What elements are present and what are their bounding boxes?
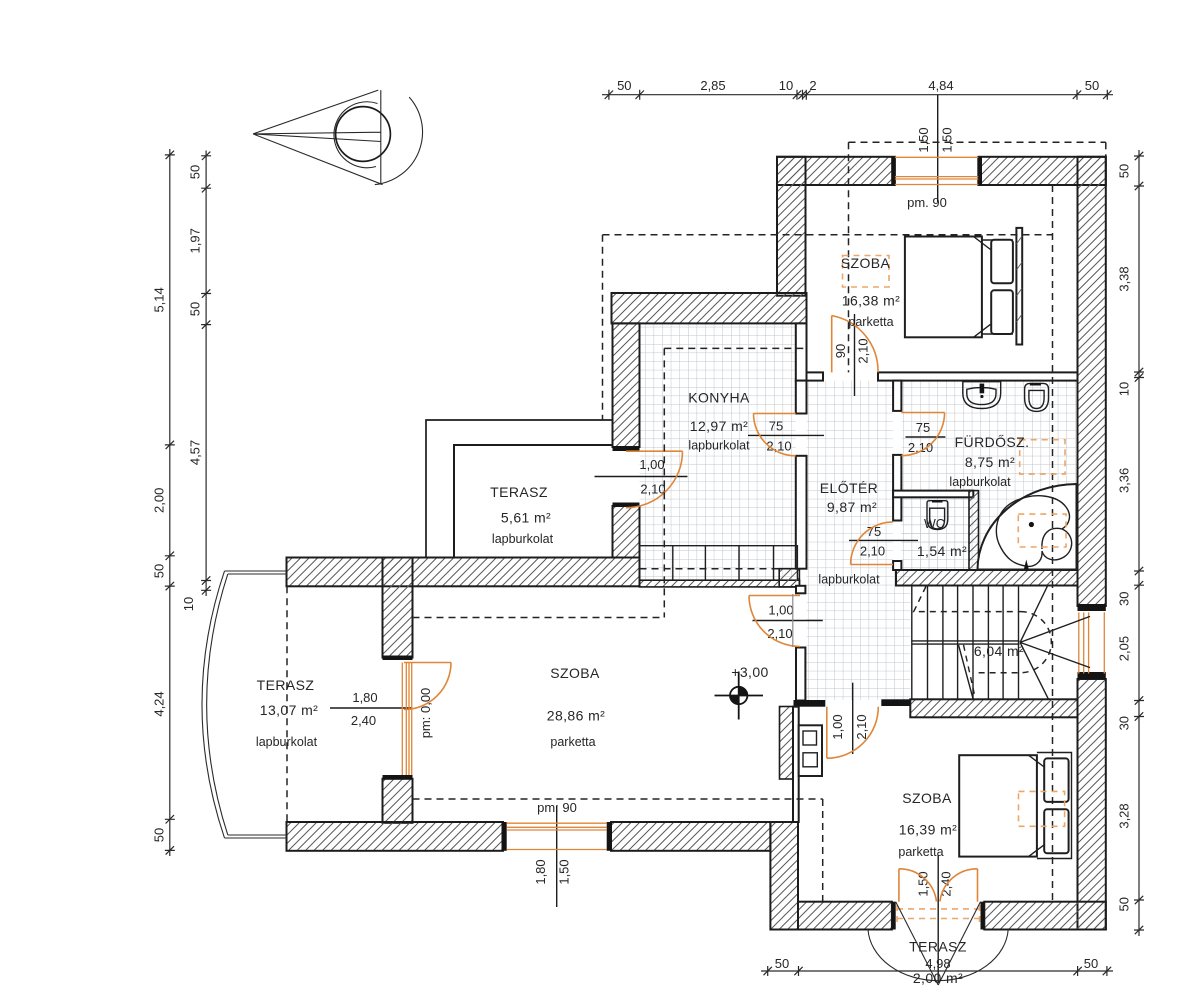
black cap divider window bottom — [383, 775, 413, 780]
french door right arc — [940, 869, 978, 902]
svg-text:TERASZ: TERASZ — [909, 939, 967, 955]
left inner dimension line — [205, 151, 207, 597]
door bedroom1 90/210 leaf — [831, 316, 833, 373]
dashed roof line x=602.5 — [602, 235, 604, 420]
door2 fraction line — [748, 434, 824, 436]
svg-text:SZOBA: SZOBA — [841, 255, 891, 271]
door szoba-corridor arc — [749, 596, 800, 647]
svg-text:2,40: 2,40 — [351, 713, 376, 728]
svg-text:13,07 m²: 13,07 m² — [260, 702, 318, 718]
wall bottom mid band — [611, 822, 770, 851]
svg-text:1,54 m²: 1,54 m² — [917, 543, 967, 559]
balcony bottom edge lines — [225, 835, 288, 838]
black cap konyha door top — [613, 446, 640, 451]
svg-text:90: 90 — [833, 344, 848, 358]
bed1 headboard — [1016, 228, 1022, 345]
svg-text:1,80: 1,80 — [352, 690, 377, 705]
dashed box furdosz upper — [1020, 440, 1065, 474]
svg-text:lapburkolat: lapburkolat — [818, 573, 880, 587]
door szoba2 100/210 leaf — [826, 707, 828, 759]
door szoba-corridor 100/210 leaf — [749, 595, 800, 597]
dashed roof line y=234.8 — [603, 234, 1053, 236]
svg-text:50: 50 — [152, 828, 167, 842]
svg-text:50: 50 — [617, 78, 631, 93]
black jamb french door left — [892, 902, 896, 930]
bed2 frame — [1037, 753, 1072, 859]
door szoba-corridor jamb line — [792, 594, 794, 647]
right dimension line — [1138, 150, 1140, 936]
bed1 mattress — [905, 237, 982, 338]
furnace box szoba2 — [799, 725, 822, 776]
stair break line — [959, 645, 974, 699]
wall konyha/bedroom1 — [796, 323, 807, 380]
wall szoba2 bottom right — [984, 902, 1106, 930]
wall furdosz/eloter seg1 — [893, 381, 901, 411]
svg-text:50: 50 — [188, 165, 203, 179]
svg-text:SZOBA: SZOBA — [902, 790, 952, 806]
dashed line x=664.3 konyha — [663, 348, 665, 617]
svg-text:1,00: 1,00 — [639, 457, 664, 472]
door konyha-eloter arc — [754, 414, 796, 456]
dashed line under counter y=568.7 — [640, 568, 780, 570]
sink furdosz — [963, 382, 1001, 409]
top window annotation line — [937, 95, 939, 202]
wall eloter left seg1 — [796, 381, 807, 414]
wall konyha/szoba thin band — [640, 580, 800, 587]
door eloter-furdosz arc — [901, 413, 944, 456]
svg-text:1,50: 1,50 — [916, 871, 931, 896]
wall stub right of szoba2 door — [881, 699, 910, 706]
svg-text:2,05: 2,05 — [1117, 636, 1132, 661]
black jamb french door right — [981, 902, 985, 930]
svg-text:1,80: 1,80 — [533, 859, 548, 884]
svg-text:50: 50 — [1085, 78, 1099, 93]
door eloter-wc 75/210 leaf — [851, 564, 894, 566]
sink tap — [980, 384, 985, 394]
terasz5 inner rail — [454, 445, 613, 558]
wall konyha left lower — [613, 506, 640, 558]
svg-text:1,97: 1,97 — [188, 228, 203, 253]
wall konyha left upper — [613, 323, 640, 447]
door eloter-furdosz 75/210 leaf — [901, 412, 944, 414]
wall eloter left seg4 below door6 — [796, 648, 805, 701]
svg-text:lapburkolat: lapburkolat — [949, 475, 1011, 489]
svg-text:parketta: parketta — [898, 845, 943, 859]
wall szoba2 left thin — [793, 707, 799, 822]
svg-text:2,10: 2,10 — [767, 626, 792, 641]
french door right leaf — [977, 869, 979, 902]
DIMENSION LABELS — [152, 78, 1132, 971]
eloter tile floor — [807, 381, 894, 570]
svg-text:lapburkolat: lapburkolat — [492, 532, 554, 546]
konyha tile floor — [640, 323, 796, 580]
terasz5 outer rail — [426, 420, 613, 558]
door bedroom1 arc — [832, 316, 878, 373]
bed2 fold bottom — [1029, 844, 1046, 857]
svg-text:2,10: 2,10 — [860, 544, 885, 559]
svg-text:3,38: 3,38 — [1117, 266, 1132, 291]
wall furdosz/eloter seg3 — [893, 561, 901, 570]
svg-text:30: 30 — [1117, 716, 1132, 730]
stair fan lines — [1020, 586, 1090, 700]
door szoba2 annotation line — [852, 683, 854, 754]
corner bathtub outer — [978, 484, 1077, 570]
svg-text:50: 50 — [1117, 897, 1132, 911]
svg-text:1,50: 1,50 — [916, 127, 931, 152]
black jamb window szoba right — [607, 822, 612, 851]
dashed line szoba y=799 — [413, 798, 823, 800]
svg-text:50: 50 — [1117, 164, 1132, 178]
door bedroom1 annotation line — [854, 314, 856, 396]
french door annotation line — [937, 855, 939, 983]
black cap divider window top — [383, 656, 413, 661]
dashed box bedroom1 label — [843, 256, 890, 288]
svg-text:28,86 m²: 28,86 m² — [547, 708, 605, 724]
bed1 pillow upper — [991, 240, 1013, 283]
bathtub drain — [1029, 522, 1034, 527]
left outer ticks — [165, 151, 175, 855]
svg-text:10: 10 — [181, 597, 196, 611]
svg-text:12,97 m²: 12,97 m² — [690, 418, 748, 434]
dashed roof line x=287 left — [286, 586, 288, 822]
wall szoba2 bottom left — [798, 902, 892, 930]
svg-text:pm. 90: pm. 90 — [907, 195, 947, 210]
terasz fan line right — [938, 902, 980, 985]
svg-text:pm: 0,00: pm: 0,00 — [418, 688, 433, 739]
bed2 fold top — [1029, 755, 1046, 768]
svg-text:10: 10 — [1117, 382, 1132, 396]
door konyha entry arc — [626, 451, 683, 508]
dashed line szoba horizontal y=617.5 — [413, 617, 665, 619]
svg-text:lapburkolat: lapburkolat — [688, 439, 750, 453]
svg-text:16,39 m²: 16,39 m² — [899, 822, 957, 838]
svg-text:pm: 90: pm: 90 — [537, 800, 577, 815]
svg-text:8,75 m²: 8,75 m² — [965, 454, 1015, 470]
svg-text:3,36: 3,36 — [1117, 468, 1132, 493]
wc toilet — [927, 501, 948, 530]
wall eloter top left part — [807, 372, 824, 380]
window terasz13 fraction line — [330, 707, 413, 709]
wall furdosz/eloter seg2 — [893, 455, 901, 521]
french door left arc — [899, 869, 937, 902]
wall eloter left seg2 — [796, 456, 807, 569]
wall eloter left seg3 door6 top stub — [796, 586, 805, 594]
bed1 fold bottom — [974, 324, 991, 337]
level marker circle — [715, 672, 764, 720]
toilet tank bar — [1030, 383, 1041, 386]
svg-text:2,10: 2,10 — [856, 338, 871, 363]
dashed box furdosz tub — [1018, 514, 1066, 547]
svg-text:5,14: 5,14 — [152, 287, 167, 312]
wall bottom-left band — [287, 822, 504, 851]
wall divider terasz13/szoba upper — [383, 558, 413, 658]
dashed roof line upper vertical left — [848, 142, 850, 372]
wc tank bar — [932, 500, 943, 502]
svg-text:50: 50 — [1084, 956, 1098, 971]
wall right upper segment — [1078, 157, 1106, 606]
svg-text:lapburkolat: lapburkolat — [256, 735, 318, 749]
svg-text:4,24: 4,24 — [152, 691, 167, 716]
door terasz13 balcony arc — [404, 663, 451, 710]
balcony top edge lines — [225, 571, 288, 574]
chimney block — [780, 707, 794, 780]
dashed roof line top — [849, 142, 1106, 157]
wall left of szoba2 block — [770, 822, 798, 930]
door konyha-eloter 75/210 leaf — [754, 413, 796, 415]
svg-text:2,00: 2,00 — [152, 488, 167, 513]
door konyha entry 100/210 leaf — [626, 450, 683, 452]
svg-text:KONYHA: KONYHA — [688, 390, 750, 406]
left inner ticks — [201, 152, 211, 595]
svg-text:FÜRDŐSZ.: FÜRDŐSZ. — [955, 433, 1030, 450]
wc toilet inner — [930, 508, 945, 529]
door eloter-wc arc — [851, 522, 894, 565]
dashed roof line x=1052.5 — [1052, 185, 1054, 902]
wall konyha top — [612, 293, 807, 323]
wall stair top band — [896, 570, 1078, 586]
stair treads — [912, 586, 1019, 700]
bathtub basin — [996, 496, 1071, 567]
svg-text:4,57: 4,57 — [188, 440, 203, 465]
svg-text:+3,00: +3,00 — [731, 664, 768, 680]
door3 fraction line — [906, 436, 946, 438]
svg-text:9,87 m²: 9,87 m² — [827, 499, 877, 515]
balcony curve inner — [207, 574, 228, 835]
svg-text:10: 10 — [779, 78, 793, 93]
door4 fraction line — [849, 539, 918, 541]
svg-text:50: 50 — [188, 302, 203, 316]
french door threshold dashed — [897, 905, 980, 922]
dashed box bed2 — [1019, 791, 1065, 826]
svg-text:1,00: 1,00 — [830, 714, 845, 739]
door szoba2 arc — [827, 707, 879, 759]
bed1 pillow frame — [982, 240, 1013, 334]
svg-text:ELŐTÉR: ELŐTÉR — [820, 480, 878, 496]
black cap konyha door bottom — [613, 503, 640, 507]
svg-text:2,10: 2,10 — [766, 439, 791, 454]
toilet inner — [1029, 390, 1044, 408]
svg-text:1,50: 1,50 — [557, 859, 572, 884]
kitchen counter — [640, 546, 798, 581]
bed1 pillow lower — [991, 290, 1013, 334]
top dimension line — [602, 94, 1113, 96]
svg-text:2: 2 — [809, 78, 816, 93]
svg-text:TERASZ: TERASZ — [257, 677, 315, 693]
black cap stair window top — [1078, 604, 1106, 611]
top dimension ticks — [605, 90, 1112, 100]
svg-text:50: 50 — [152, 564, 167, 578]
bottom window annotation line — [556, 806, 558, 907]
left outer dimension line — [169, 149, 171, 856]
svg-text:6,04 m²: 6,04 m² — [974, 643, 1024, 659]
bathtub tap wedge — [1024, 560, 1029, 570]
north arrow — [253, 90, 423, 185]
black jamb window szoba left — [502, 822, 507, 851]
svg-text:TERASZ: TERASZ — [490, 484, 548, 500]
window bedroom1 top (1,50/1,50) — [895, 157, 978, 184]
bed2 pillow upper — [1044, 758, 1068, 802]
stair landing double line — [912, 641, 1020, 644]
terasz bottom arc — [868, 930, 1008, 981]
furnace inner square 2 — [803, 753, 817, 767]
svg-text:1,00: 1,00 — [768, 603, 793, 618]
black jamb top window left — [891, 157, 895, 185]
svg-text:4,84: 4,84 — [928, 78, 953, 93]
balcony curve outer — [202, 571, 225, 838]
sink inner bowl — [967, 388, 996, 405]
wall eloter top right part — [878, 372, 1078, 380]
window terasz13 (1,80/2,40) vertical — [402, 663, 411, 776]
ROOM LABELS — [256, 255, 1029, 986]
svg-text:30: 30 — [1117, 592, 1132, 606]
svg-text:SZOBA: SZOBA — [550, 665, 600, 681]
svg-text:2,85: 2,85 — [700, 78, 725, 93]
svg-text:5,61 m²: 5,61 m² — [501, 510, 551, 526]
stair walk dashed — [914, 587, 1052, 673]
wall stair bottom — [910, 699, 1077, 717]
wall stub hatched right of konyha band — [779, 569, 799, 587]
wall top bedroom1 right of window — [978, 157, 1106, 185]
svg-text:WC: WC — [924, 517, 945, 531]
svg-text:parketta: parketta — [848, 315, 893, 329]
svg-text:1,50: 1,50 — [940, 127, 955, 152]
window stairwell right — [1079, 612, 1105, 673]
wc tile floor — [901, 491, 969, 570]
sink tap dot — [980, 395, 983, 398]
stair break dashed — [964, 645, 976, 699]
svg-text:3,28: 3,28 — [1117, 803, 1132, 828]
furnace inner square 1 — [803, 731, 817, 745]
svg-text:75: 75 — [769, 419, 783, 434]
DIMENSION LINES — [165, 90, 1144, 983]
bed2 mattress — [959, 755, 1037, 856]
wall bedroom1 left — [777, 157, 806, 296]
black cap stair window bottom — [1078, 672, 1106, 679]
door6 fraction line — [753, 620, 823, 622]
toilet furdosz — [1025, 383, 1049, 411]
bed2 pillow lower — [1044, 809, 1068, 853]
corridor tile floor — [807, 570, 911, 700]
wall band under terasz5 — [287, 558, 640, 587]
door5 fraction line — [595, 476, 688, 478]
bottom dimension ticks — [764, 966, 1112, 976]
door terasz13 balcony leaf — [404, 662, 451, 664]
wall corridor/szoba2 stub — [794, 700, 826, 707]
black jamb top window right — [978, 157, 982, 185]
svg-text:50: 50 — [775, 956, 789, 971]
svg-text:parketta: parketta — [550, 735, 595, 749]
svg-text:16,38 m²: 16,38 m² — [842, 293, 900, 309]
svg-text:75: 75 — [916, 420, 930, 435]
wall wc right hatched — [969, 491, 979, 570]
bathtub inner curve — [1042, 528, 1062, 549]
dashed line y=348.4 konyha — [664, 347, 806, 349]
svg-text:2,10: 2,10 — [854, 714, 869, 739]
bed1 fold top — [974, 237, 991, 250]
window szoba bottom (1,80/1,50) — [507, 823, 607, 849]
furdosz tile floor — [901, 381, 1077, 570]
terasz fan line left — [896, 902, 939, 985]
french door left leaf — [898, 869, 900, 902]
wall wc top — [893, 491, 973, 498]
svg-text:2,00 m²: 2,00 m² — [913, 970, 963, 986]
wall divider terasz13/szoba lower — [383, 779, 413, 823]
bottom dimension line — [761, 970, 1113, 972]
dashed line x=822.7 szoba2 — [822, 799, 824, 902]
wall top bedroom1 left of window — [777, 157, 895, 185]
wall right lower segment — [1078, 679, 1106, 930]
svg-text:2,10: 2,10 — [908, 440, 933, 455]
right dimension ticks — [1134, 152, 1144, 934]
